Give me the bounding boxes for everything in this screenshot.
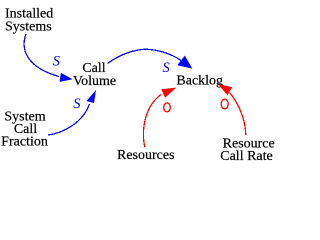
arrowhead System Call Fraction to Call Volume — [87, 90, 97, 103]
svg-text:Volume: Volume — [73, 74, 116, 89]
svg-text:Backlog: Backlog — [176, 74, 223, 89]
wire arrow Resource Call Rate to Backlog — [230, 93, 246, 136]
svg-text:Systems: Systems — [5, 20, 52, 35]
wire arrow Call Volume to Backlog — [108, 49, 182, 63]
svg-text:S: S — [163, 60, 171, 76]
arrowhead Call Volume to Backlog — [177, 56, 192, 69]
svg-text:Fraction: Fraction — [1, 135, 48, 150]
label O (Resources link) — [164, 103, 171, 112]
node System Call Fraction — [1, 109, 48, 149]
node Installed Systems — [5, 7, 53, 35]
svg-text:S: S — [53, 54, 61, 70]
wire arrow Resources to Backlog — [143, 95, 161, 148]
arrowhead Resource Call Rate to Backlog — [218, 84, 232, 95]
node Resource Call Rate — [220, 137, 274, 164]
label O (Resource Call Rate link) — [221, 99, 228, 109]
svg-text:Call Rate: Call Rate — [220, 149, 273, 164]
wire arrow Installed Systems to Call Volume — [24, 34, 59, 77]
svg-text:Resources: Resources — [117, 148, 175, 163]
svg-text:S: S — [73, 96, 81, 112]
arrowhead Installed Systems to Call Volume — [60, 73, 73, 82]
arrowhead Resources to Backlog — [161, 88, 176, 98]
node Call Volume — [73, 61, 116, 89]
wire arrow System Call Fraction to Call Volume — [48, 104, 90, 135]
